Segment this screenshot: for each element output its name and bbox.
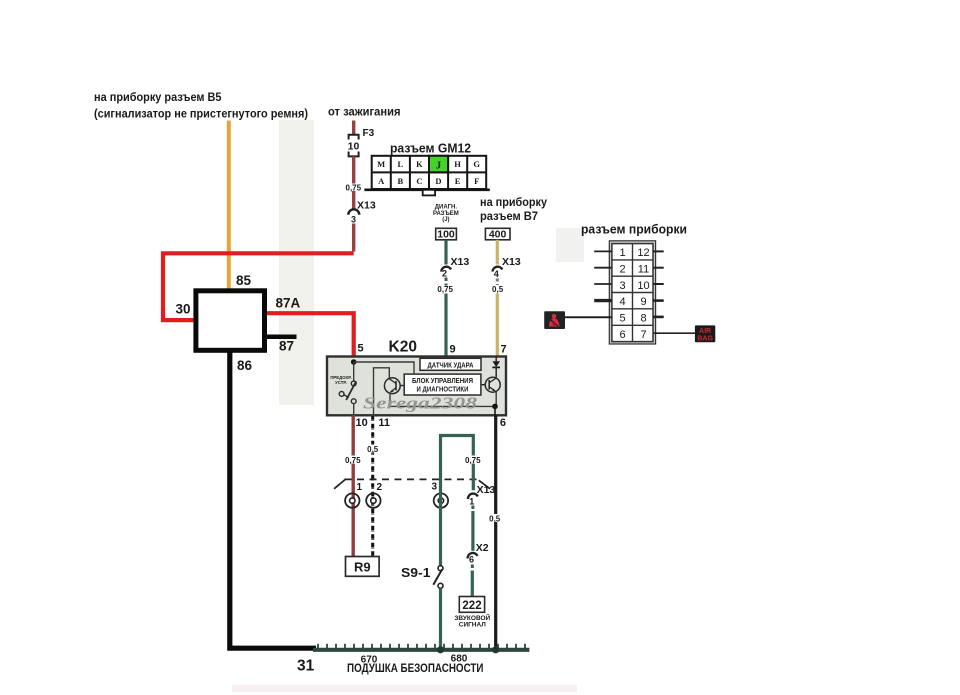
svg-text:222: 222 <box>462 600 481 612</box>
value 0,5 pin6 <box>488 514 503 523</box>
pin stub right row2 <box>653 267 664 269</box>
svg-text:L: L <box>397 159 403 169</box>
pin stub right row4 <box>653 299 664 302</box>
svg-text:ПОДУШКА БЕЗОПАСНОСТИ: ПОДУШКА БЕЗОПАСНОСТИ <box>347 661 484 675</box>
indicator airbag lamp <box>695 325 715 342</box>
wire pin6 internal <box>494 406 496 415</box>
svg-text:0,5: 0,5 <box>489 514 501 523</box>
wire black 86 to ground <box>230 351 316 649</box>
value 0,75 horn <box>464 456 482 465</box>
resistor R9 box <box>346 557 380 577</box>
wire orange to B5 <box>227 121 231 291</box>
svg-text:УСТР.: УСТР. <box>335 380 347 385</box>
wire tan to K20 pin7 <box>496 294 499 359</box>
svg-text:4: 4 <box>619 296 625 308</box>
svg-text:0,75: 0,75 <box>465 456 481 465</box>
svg-text:R9: R9 <box>354 560 371 575</box>
pin stub left row2 <box>594 267 612 269</box>
box датчик удара <box>420 358 481 370</box>
svg-text:1: 1 <box>619 247 625 259</box>
node pin5 junction dot <box>351 359 357 365</box>
node 400 box <box>485 228 510 240</box>
wire F3 lower <box>352 157 355 210</box>
svg-text:7: 7 <box>640 329 646 341</box>
wire green horn loop <box>441 436 474 567</box>
pin stub right row5 <box>653 316 664 319</box>
connector ring 2 <box>366 493 380 507</box>
svg-text:K: K <box>416 159 423 169</box>
svg-text:X13: X13 <box>357 200 376 212</box>
label диагн. разъем (J) <box>433 205 459 224</box>
svg-text:X13: X13 <box>502 256 521 268</box>
svg-text:C: C <box>416 176 422 186</box>
svg-text:2: 2 <box>377 482 383 493</box>
svg-text:G: G <box>473 159 480 169</box>
wire red loop to relay pin30 <box>163 253 354 320</box>
svg-text:на приборку разъем B5: на приборку разъем B5 <box>94 90 222 104</box>
connector numbers right <box>637 247 649 341</box>
wire striped pin11 to R9 <box>371 415 374 556</box>
value 0,75 on F3 wire <box>345 184 362 193</box>
svg-text:10: 10 <box>356 417 368 429</box>
wire internal pin5 to block <box>354 362 414 374</box>
svg-text:10: 10 <box>348 141 360 153</box>
pin stub right row3 <box>653 283 664 285</box>
svg-text:31: 31 <box>297 658 315 675</box>
svg-text:1: 1 <box>357 482 363 493</box>
svg-text:5: 5 <box>619 313 625 325</box>
switch S9-1 <box>433 566 443 589</box>
wire belt lamp to pin5 <box>565 316 612 318</box>
svg-text:9: 9 <box>450 344 456 356</box>
svg-text:3: 3 <box>351 215 356 225</box>
svg-text:БЛОК УПРАВЛЕНИЯ: БЛОК УПРАВЛЕНИЯ <box>412 378 473 385</box>
connector X13 pin3 arc <box>348 209 359 215</box>
svg-text:на приборку: на приборку <box>480 195 547 209</box>
svg-text:86: 86 <box>237 358 253 373</box>
wire F3 top stub <box>352 121 355 136</box>
value 0,75 green <box>436 285 455 294</box>
indicator belt lamp <box>544 311 565 329</box>
transistor VT2 <box>481 377 500 392</box>
node 222 box <box>459 597 484 613</box>
pin stub left row4 <box>594 299 612 302</box>
svg-text:BAG: BAG <box>697 336 713 343</box>
svg-text:6: 6 <box>500 417 506 429</box>
wire tan dash mark <box>496 279 499 286</box>
wire internal emitter bus <box>390 405 495 407</box>
svg-text:9: 9 <box>640 296 646 308</box>
svg-text:(сигнализатор не пристегнутого: (сигнализатор не пристегнутого ремня) <box>94 107 308 121</box>
wire green X13 to X2 <box>471 506 474 551</box>
svg-text:H: H <box>454 159 461 169</box>
svg-text:Serega2308: Serega2308 <box>363 394 477 413</box>
GM12 letters bottom row <box>378 176 479 186</box>
wire 87 stub <box>267 334 297 339</box>
GM12 base line <box>364 189 489 192</box>
GM12 key tab <box>423 190 435 196</box>
svg-text:400: 400 <box>489 229 507 241</box>
svg-text:5: 5 <box>358 343 364 355</box>
GM12 letters top row <box>377 159 480 172</box>
svg-text:E: E <box>455 176 461 186</box>
svg-text:4: 4 <box>494 269 499 279</box>
svg-text:X13: X13 <box>451 256 470 268</box>
svg-text:0,75: 0,75 <box>437 285 453 294</box>
svg-text:B: B <box>397 176 403 186</box>
svg-text:85: 85 <box>236 273 252 288</box>
node pin6 junction dot <box>492 404 498 410</box>
connector X13 pin2 arc <box>440 266 451 272</box>
safety switch in K20 <box>339 362 356 415</box>
svg-text:F3: F3 <box>363 128 375 139</box>
node 100 box <box>436 228 457 240</box>
wire internal pin11 riser <box>374 368 390 416</box>
svg-text:ДИАГН.: ДИАГН. <box>435 205 458 211</box>
ground bus ticks <box>318 644 525 649</box>
svg-text:6: 6 <box>469 555 474 565</box>
diode in K20 <box>492 357 500 378</box>
svg-text:AIR: AIR <box>699 328 711 335</box>
wire VT1 emitter down <box>389 393 391 407</box>
svg-text:0,5: 0,5 <box>492 285 504 294</box>
svg-text:30: 30 <box>175 302 190 317</box>
block K20 box <box>327 357 506 416</box>
svg-text:0,5: 0,5 <box>367 445 379 454</box>
label ПРЕДОХР. УСТР. <box>330 375 351 385</box>
connector instrument panel <box>609 241 655 344</box>
pin stub left row1 <box>594 250 612 252</box>
svg-text:0,75: 0,75 <box>346 184 362 193</box>
box блок управления <box>404 374 481 395</box>
ground bus 31 <box>313 648 529 652</box>
svg-text:A: A <box>378 176 385 186</box>
svg-text:2: 2 <box>619 264 625 276</box>
svg-text:6: 6 <box>619 329 625 341</box>
svg-text:1: 1 <box>469 497 474 507</box>
svg-text:87A: 87A <box>276 296 301 311</box>
svg-text:2: 2 <box>442 269 447 279</box>
wire red 87A to K20 pin5 <box>267 313 354 359</box>
svg-text:0,75: 0,75 <box>345 456 361 465</box>
relay box <box>196 291 265 351</box>
svg-text:СИГНАЛ: СИГНАЛ <box>459 621 487 628</box>
pin stub right row1 <box>653 250 664 252</box>
svg-text:разъем B7: разъем B7 <box>480 209 538 223</box>
svg-text:X2: X2 <box>476 542 489 554</box>
svg-text:10: 10 <box>637 280 649 292</box>
svg-text:И ДИАГНОСТИКИ: И ДИАГНОСТИКИ <box>417 387 469 394</box>
svg-text:3: 3 <box>619 280 625 292</box>
svg-text:(J): (J) <box>442 217 449 223</box>
wire green to K20 pin9 <box>444 294 447 359</box>
label звуковой сигнал <box>454 613 490 629</box>
svg-text:J: J <box>436 160 442 172</box>
value 0,5 tan <box>490 285 505 294</box>
wire dark red pin10 to R9 <box>352 415 355 556</box>
svg-text:от зажигания: от зажигания <box>328 105 401 119</box>
fuse F3 <box>349 135 359 157</box>
connector boundary dashed line <box>334 479 490 488</box>
svg-text:100: 100 <box>437 229 455 241</box>
label на приборку разъем B7 <box>480 195 547 223</box>
svg-text:11: 11 <box>638 264 649 276</box>
svg-text:87: 87 <box>279 339 294 354</box>
connector GM12 grid <box>372 156 487 189</box>
svg-text:K20: K20 <box>389 339 417 356</box>
svg-text:разъем приборки: разъем приборки <box>581 222 687 237</box>
node ground dot S9-1 <box>437 646 444 653</box>
wire pin7 to airbag lamp <box>653 332 695 334</box>
wire green dash mark <box>445 278 448 286</box>
wire VT2 emitter down <box>495 392 497 407</box>
value 0,75 pin10 <box>344 456 362 465</box>
svg-text:F: F <box>474 176 479 186</box>
svg-text:разъем GM12: разъем GM12 <box>390 141 471 156</box>
svg-text:7: 7 <box>501 344 507 356</box>
svg-text:8: 8 <box>640 313 646 325</box>
wire black pin6 to ground <box>494 415 497 649</box>
pin stub left row3 <box>594 283 612 285</box>
transistor VT1 <box>384 378 404 394</box>
svg-text:ДАТЧИК УДАРА: ДАТЧИК УДАРА <box>428 360 474 369</box>
connector numbers left <box>619 247 625 341</box>
connector X13 pin1 arc <box>467 492 478 499</box>
svg-text:11: 11 <box>378 417 390 429</box>
svg-text:D: D <box>435 176 441 186</box>
wire green S9-1 to ground <box>439 588 442 649</box>
svg-text:3: 3 <box>432 481 438 492</box>
connector X13 pin4 arc <box>492 266 503 272</box>
wire red from X13 to loop corner <box>352 224 355 252</box>
svg-text:X13: X13 <box>477 484 496 496</box>
node ground dot pin6 <box>492 646 499 653</box>
connector ring 3 <box>434 493 448 507</box>
svg-text:M: M <box>377 159 385 169</box>
wire green X2 to 222 <box>471 565 474 597</box>
svg-text:12: 12 <box>637 247 649 259</box>
wire tan from 400 <box>496 240 499 265</box>
svg-text:S9-1: S9-1 <box>401 565 431 580</box>
background smudge band <box>232 120 584 692</box>
wire green from 100 <box>444 240 447 265</box>
value 0,5 pin11 <box>366 445 381 454</box>
connector X2 arc <box>467 552 478 559</box>
connector ring 1 <box>345 493 359 507</box>
